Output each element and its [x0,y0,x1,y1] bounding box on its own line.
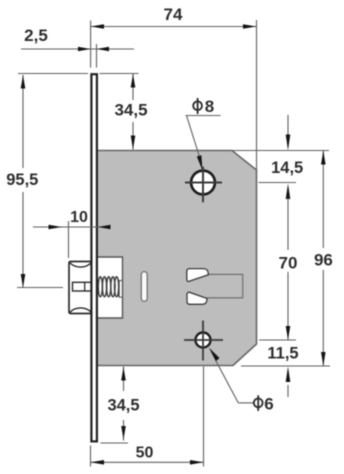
svg-text:11,5: 11,5 [267,345,298,363]
svg-text:70: 70 [279,254,298,273]
svg-text:74: 74 [164,5,183,24]
svg-text:6: 6 [264,395,273,414]
svg-text:34,5: 34,5 [107,397,139,415]
svg-text:14,5: 14,5 [271,159,303,177]
svg-text:8: 8 [205,97,214,116]
svg-text:10: 10 [70,209,88,226]
svg-text:95,5: 95,5 [6,171,38,189]
svg-text:2,5: 2,5 [24,26,48,45]
svg-text:50: 50 [136,445,154,462]
svg-text:96: 96 [314,251,333,270]
svg-text:34,5: 34,5 [114,101,147,120]
